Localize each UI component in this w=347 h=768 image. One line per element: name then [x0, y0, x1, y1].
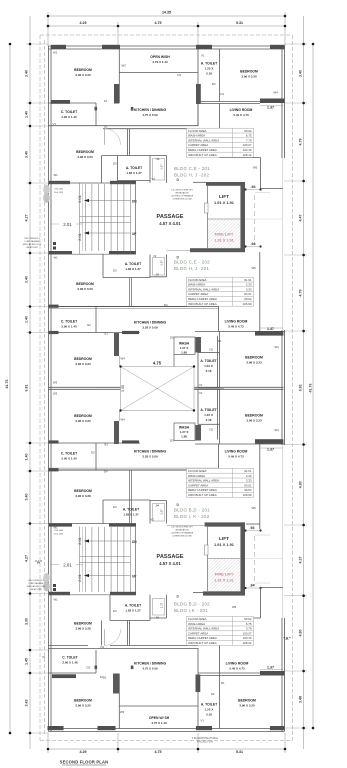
a-toilet top east wall: [219, 49, 221, 102]
bedroom bottom-left east wall: [118, 674, 120, 729]
svg-text:99.62: 99.62: [244, 488, 252, 492]
svg-text:1.37: 1.37: [267, 327, 274, 331]
living mid west walls: [218, 307, 219, 471]
svg-text:D4: D4: [101, 645, 105, 649]
a-toilet box below stair bottom wing: [110, 595, 167, 621]
svg-text:FLOOR AREA: FLOOR AREA: [188, 617, 207, 621]
svg-text:7.79: 7.79: [246, 138, 252, 142]
svg-text:3.33: 3.33: [246, 479, 252, 483]
svg-text:4.75 X 1.43: 4.75 X 1.43: [151, 721, 167, 725]
svg-text:4.75: 4.75: [155, 21, 162, 25]
svg-text:4.37: 4.37: [299, 557, 303, 564]
svg-text:BEDROOM: BEDROOM: [238, 699, 256, 703]
svg-text:W5: W5: [252, 506, 257, 510]
top wing interior walls: [49, 49, 285, 189]
svg-text:LOBBY PASSAGE: LOBBY PASSAGE: [25, 240, 41, 243]
living top west wall: [219, 104, 221, 158]
svg-text:INSTALLATION: INSTALLATION: [175, 529, 189, 532]
kitchen west wall: [127, 129, 129, 156]
svg-text:WASH AREA: WASH AREA: [188, 474, 205, 478]
svg-text:PASSAGE: PASSAGE: [157, 554, 184, 560]
svg-text:2.01: 2.01: [63, 563, 72, 568]
svg-text:103.16: 103.16: [243, 636, 252, 640]
svg-text:2.01: 2.01: [77, 536, 82, 545]
svg-text:2.18: 2.18: [206, 369, 212, 373]
svg-text:4.75 X 5.09: 4.75 X 5.09: [142, 113, 158, 117]
svg-text:2.90 X 1.40: 2.90 X 1.40: [61, 457, 77, 461]
svg-text:D3: D3: [178, 73, 182, 77]
svg-text:W4: W4: [121, 418, 126, 422]
svg-text:FLOOR AREA: FLOOR AREA: [188, 469, 207, 473]
svg-text:41.76: 41.76: [309, 384, 313, 393]
svg-text:D2: D2: [212, 82, 216, 86]
svg-text:1.91 X 1.91: 1.91 X 1.91: [214, 542, 235, 547]
svg-text:5.31: 5.31: [236, 750, 243, 754]
svg-text:4.79: 4.79: [299, 290, 303, 297]
dim 1.37 mid right bottom: [260, 447, 283, 449]
svg-text:A. TOILET: A. TOILET: [201, 703, 218, 707]
corridor below toilet bottom wing: [102, 621, 130, 646]
svg-text:4.29: 4.29: [80, 21, 87, 25]
svg-text:W2: W2: [53, 725, 58, 729]
svg-text:3.40: 3.40: [299, 70, 303, 77]
svg-text:3.96 X 3.53: 3.96 X 3.53: [77, 155, 93, 159]
stair block bottom: [49, 523, 136, 595]
dim 1.37 mid right top: [260, 327, 283, 329]
svg-text:W5: W5: [252, 266, 257, 270]
lift block top: [193, 181, 206, 183]
lift dims bottom: [244, 529, 261, 589]
room labels: [61, 55, 263, 725]
svg-text:WASH AREA: WASH AREA: [188, 134, 205, 138]
svg-text:CORRIDORS & 10 NB: CORRIDORS & 10 NB: [172, 199, 192, 201]
svg-text:3.96 X 3.23: 3.96 X 3.23: [246, 419, 262, 423]
svg-text:INDV.BUILT UP AREA: INDV.BUILT UP AREA: [188, 302, 217, 306]
svg-text:BLDG B,D - 201: BLDG B,D - 201: [174, 508, 210, 513]
kitchen east wall: [197, 49, 199, 126]
svg-text:D3: D3: [170, 336, 174, 340]
svg-text:1.88: 1.88: [181, 435, 187, 439]
svg-text:INTERNAL WALL AREA: INTERNAL WALL AREA: [188, 627, 219, 631]
svg-text:W3: W3: [122, 64, 127, 68]
mid-left C toilet bottom wing: [49, 443, 141, 470]
passage west wall: [135, 183, 137, 254]
svg-text:3.96 X 3.23: 3.96 X 3.23: [246, 361, 262, 365]
svg-text:1.37: 1.37: [160, 509, 164, 515]
svg-text:1.22 X: 1.22 X: [204, 413, 213, 417]
svg-text:1.83 X 1.37: 1.83 X 1.37: [125, 609, 141, 613]
svg-text:BEDROOM: BEDROOM: [240, 70, 258, 74]
svg-text:2.18: 2.18: [206, 713, 212, 717]
svg-text:3.40: 3.40: [25, 494, 29, 501]
svg-text:.94: .94: [155, 616, 159, 620]
svg-text:D3: D3: [113, 505, 117, 509]
svg-text:A. TOILET: A. TOILET: [125, 262, 142, 266]
kitchen east wall bottom: [197, 648, 199, 729]
svg-text:2.96 X 1.48: 2.96 X 1.48: [62, 661, 78, 665]
lobby edge line top: [167, 249, 191, 251]
a-toilet mid boxes: [198, 332, 220, 445]
svg-text:5.31: 5.31: [236, 21, 243, 25]
svg-text:BEDROOM: BEDROOM: [74, 68, 92, 72]
wing divider wall top: [49, 306, 219, 308]
svg-text:KITCHEN / DINNING: KITCHEN / DINNING: [134, 662, 167, 666]
dim 1.37 top right: [260, 105, 283, 107]
svg-text:D1: D1: [221, 92, 225, 96]
svg-text:BLDG H, J -201: BLDG H, J -201: [174, 266, 209, 271]
dim 1.37 bottom right: [260, 668, 283, 670]
kitchen east bar bottom: [196, 675, 201, 693]
svg-text:THE CORRIDOR &: THE CORRIDOR &: [24, 238, 40, 240]
svg-text:2.01: 2.01: [77, 232, 82, 241]
svg-text:PROJECTION: PROJECTION: [197, 741, 213, 744]
svg-text:WASH: WASH: [179, 426, 190, 430]
svg-text:1.37: 1.37: [267, 105, 274, 109]
svg-text:WASH AREA: WASH AREA: [188, 622, 205, 626]
svg-text:C.E. GROUTS FIRE LIFT: C.E. GROUTS FIRE LIFT: [171, 527, 193, 529]
toilet small dims: [155, 157, 163, 620]
wash box top: [174, 337, 195, 367]
svg-text:LIVING ROOM: LIVING ROOM: [225, 320, 248, 324]
svg-text:BEDROOM: BEDROOM: [74, 489, 92, 493]
living bottom wall fill: [260, 671, 285, 676]
svg-text:LIVING ROOM: LIVING ROOM: [226, 662, 249, 666]
svg-text:A. TOILET: A. TOILET: [126, 166, 143, 170]
svg-text:A. TOILET: A. TOILET: [123, 508, 140, 512]
svg-text:W2: W2: [53, 51, 58, 55]
south wall window fills: [48, 726, 285, 730]
a-toilet top box left: [197, 104, 199, 127]
kitchen east wall bar: [196, 84, 201, 104]
svg-text:BEDROOM: BEDROOM: [74, 622, 92, 626]
svg-text:3.96 X 3.23: 3.96 X 3.23: [75, 362, 91, 366]
svg-text:BEDROOM: BEDROOM: [245, 414, 263, 418]
corridor above stair bottom: [130, 470, 132, 524]
svg-text:RERA CARPET AREA: RERA CARPET AREA: [188, 148, 217, 152]
svg-text:3.05: 3.05: [121, 385, 125, 392]
svg-text:KITCHEN / DINNING: KITCHEN / DINNING: [134, 108, 167, 112]
svg-text:D3: D3: [113, 609, 117, 613]
svg-text:1.22 X: 1.22 X: [204, 364, 213, 368]
door posts toilet row: [95, 107, 98, 111]
svg-text:E1: E1: [105, 443, 109, 447]
svg-text:TH0.30M: TH0.30M: [54, 530, 63, 532]
svg-text:INSTALLATION: INSTALLATION: [175, 192, 189, 195]
svg-text:108.12: 108.12: [243, 153, 252, 157]
svg-text:WIDTH AS PER CODE: WIDTH AS PER CODE: [23, 243, 42, 246]
svg-text:100.37: 100.37: [243, 631, 252, 635]
lobby edge line bottom: [167, 525, 207, 527]
balcony slab lines bottom: [255, 534, 270, 536]
svg-text:1.83 X 1.37: 1.83 X 1.37: [123, 513, 139, 517]
svg-text:BEDROOM: BEDROOM: [76, 150, 94, 154]
svg-text:108.32: 108.32: [243, 641, 252, 645]
svg-text:OPEN W/SH: OPEN W/SH: [150, 55, 170, 59]
svg-text:D3: D3: [87, 666, 91, 670]
building outline walls: [49, 46, 285, 732]
svg-text:V2: V2: [153, 254, 157, 258]
svg-text:2.01: 2.01: [63, 222, 72, 227]
svg-text:2.90 X 1.40: 2.90 X 1.40: [61, 325, 77, 329]
lobby east walls: [246, 252, 260, 529]
svg-text:6.75: 6.75: [246, 622, 252, 626]
svg-text:4.75 X 5.09: 4.75 X 5.09: [142, 667, 158, 671]
wall toilet bottom / kitchen top: [49, 125, 199, 127]
svg-text:D3: D3: [91, 451, 95, 455]
svg-text:C.E. GROUTS FIRE LIFT: C.E. GROUTS FIRE LIFT: [171, 190, 193, 192]
svg-text:D3: D3: [113, 162, 117, 166]
svg-text:1.37: 1.37: [267, 665, 274, 669]
svg-text:E1: E1: [104, 99, 108, 103]
door posts toilet row bottom: [95, 666, 98, 670]
svg-text:2.30: 2.30: [246, 474, 252, 478]
svg-text:W3: W3: [53, 392, 58, 396]
svg-text:3.40: 3.40: [25, 151, 29, 158]
svg-text:3.30: 3.30: [25, 618, 29, 625]
svg-text:WASH: WASH: [179, 342, 190, 346]
svg-text:A. TOILET: A. TOILET: [200, 408, 217, 412]
svg-text:INDV.BUILT UP AREA: INDV.BUILT UP AREA: [188, 493, 217, 497]
svg-text:93.62: 93.62: [244, 617, 252, 621]
svg-text:E1: E1: [105, 332, 109, 336]
svg-text:4.75: 4.75: [155, 750, 162, 754]
svg-text:INTERNAL WALL AREA: INTERNAL WALL AREA: [188, 138, 219, 142]
svg-text:5.49 X 4.73: 5.49 X 4.73: [228, 325, 244, 329]
svg-text:3.96 X 3.20: 3.96 X 3.20: [75, 73, 91, 77]
right dim connector ticks: [284, 44, 307, 728]
svg-text:41.76: 41.76: [5, 380, 9, 389]
living top wall fill: [260, 99, 285, 104]
svg-text:106.99: 106.99: [243, 302, 252, 306]
svg-text:RERA CARPET AREA: RERA CARPET AREA: [188, 488, 217, 492]
svg-text:"A": "A": [283, 636, 290, 641]
svg-text:V1: V1: [199, 383, 203, 387]
living room top wall: [198, 101, 285, 103]
svg-text:6.81: 6.81: [25, 385, 29, 392]
a-toilet box near stair top: [102, 156, 167, 184]
svg-text:A. TOILET: A. TOILET: [200, 359, 217, 363]
svg-text:V2: V2: [152, 177, 156, 181]
svg-text:W4: W4: [275, 345, 280, 349]
door dots bottom stair: [53, 584, 56, 587]
svg-text:FLOOR AREA: FLOOR AREA: [188, 278, 207, 282]
svg-text:3.40: 3.40: [25, 276, 29, 283]
svg-text:W4: W4: [275, 428, 280, 432]
svg-text:CARPET AREA: CARPET AREA: [188, 631, 208, 635]
svg-text:1.40: 1.40: [25, 454, 29, 461]
svg-text:5.49 X 4.73: 5.49 X 4.73: [228, 455, 244, 459]
svg-text:1.37 X: 1.37 X: [180, 430, 189, 434]
svg-text:TH0.30M: TH0.30M: [54, 189, 63, 191]
svg-text:BLDG B,D - 202: BLDG B,D - 202: [174, 602, 210, 607]
svg-text:3.96 X 3.20: 3.96 X 3.20: [75, 704, 91, 708]
balcony slab line top: [245, 218, 283, 220]
svg-text:4.47: 4.47: [299, 215, 303, 222]
svg-text:LIVING ROOM: LIVING ROOM: [230, 108, 253, 112]
tiny note top: [171, 190, 194, 201]
svg-text:W4: W4: [121, 357, 126, 361]
svg-text:.94: .94: [156, 157, 160, 161]
svg-text:BLDG I, K - 202: BLDG I, K - 202: [174, 514, 210, 519]
svg-text:1.88: 1.88: [181, 351, 187, 355]
svg-text:4.29: 4.29: [80, 750, 87, 754]
stair top wall: [49, 181, 136, 184]
balcony dashes right of lift top: [254, 195, 256, 245]
svg-text:KITCHEN / DINNING: KITCHEN / DINNING: [134, 450, 167, 454]
svg-text:4.27: 4.27: [25, 215, 29, 222]
svg-text:BLDG C,E - 202: BLDG C,E - 202: [174, 260, 210, 265]
svg-text:1.37: 1.37: [160, 164, 164, 170]
svg-text:INTERNAL WALL AREA: INTERNAL WALL AREA: [188, 287, 219, 291]
svg-text:2.18: 2.18: [206, 418, 212, 422]
svg-text:.94: .94: [251, 242, 256, 246]
svg-text:6.75: 6.75: [246, 134, 252, 138]
svg-text:1.37 X: 1.37 X: [180, 346, 189, 350]
svg-text:FIRE LIFT: FIRE LIFT: [215, 572, 234, 577]
svg-text:D1: D1: [103, 676, 107, 680]
corridor lines mid shaft: [96, 387, 224, 390]
svg-text:W5: W5: [232, 605, 237, 609]
living room bottom wall: [220, 157, 261, 159]
svg-text:91.01: 91.01: [244, 278, 252, 282]
svg-text:V1: V1: [42, 655, 46, 659]
stair block top: [80, 183, 131, 254]
misc component labels: [42, 51, 279, 730]
svg-text:D2: D2: [210, 348, 214, 352]
svg-text:LUG FIELD OF PASSAGE: LUG FIELD OF PASSAGE: [171, 532, 194, 535]
svg-text:C. TOLET: C. TOLET: [62, 656, 78, 660]
svg-text:INDV.BUILT UP AREA: INDV.BUILT UP AREA: [188, 153, 217, 157]
svg-text:BEDROOM: BEDROOM: [74, 414, 92, 418]
svg-text:LAP AT FIRST: LAP AT FIRST: [30, 588, 42, 591]
svg-text:.94: .94: [155, 504, 159, 508]
svg-text:.94: .94: [155, 273, 159, 277]
lobby east step: [260, 158, 262, 189]
door dots top stair: [53, 242, 56, 245]
svg-text:2.30: 2.30: [246, 283, 252, 287]
stair dim 2.01 labels top: [82, 184, 84, 251]
svg-text:THE CORRIDOR &: THE CORRIDOR &: [28, 580, 44, 582]
mid bedrooms divider double wall: [49, 387, 284, 389]
svg-text:WASH AREA: WASH AREA: [188, 283, 205, 287]
svg-text:RERA CARPET AREA: RERA CARPET AREA: [188, 297, 217, 301]
svg-text:G2: G2: [87, 323, 91, 327]
svg-text:103.16: 103.16: [243, 148, 252, 152]
svg-text:CARPET AREA: CARPET AREA: [188, 292, 208, 296]
left dim connector ticks: [26, 44, 49, 733]
svg-text:3.28 X 5.09: 3.28 X 5.09: [142, 326, 158, 330]
svg-text:3.96 X 3.28: 3.96 X 3.28: [75, 627, 91, 631]
svg-text:DN: DN: [132, 199, 137, 203]
svg-text:C. TOILET: C. TOILET: [61, 110, 78, 114]
svg-text:4.27: 4.27: [25, 555, 29, 562]
balcony dashes right of lift bottom: [254, 536, 256, 585]
svg-text:BEDROOM: BEDROOM: [245, 356, 263, 360]
svg-text:BLDG H, J -202: BLDG H, J -202: [174, 172, 209, 177]
right dim labels: [299, 70, 313, 703]
svg-text:DN: DN: [132, 540, 137, 544]
svg-text:2.90 X 1.40: 2.90 X 1.40: [61, 115, 77, 119]
svg-text:PASSAGE: PASSAGE: [157, 214, 184, 220]
kitchen bottom top wall: [49, 645, 89, 647]
svg-text:3.79: 3.79: [246, 627, 252, 631]
svg-text:INTERNAL WALL AREA: INTERNAL WALL AREA: [188, 479, 219, 483]
corridor west line: [101, 156, 103, 184]
dashed architectural projection outline: [40, 35, 293, 741]
svg-text:2.01: 2.01: [77, 194, 82, 203]
svg-text:V1: V1: [201, 719, 205, 723]
kitchen west bar bottom: [113, 674, 119, 694]
svg-text:LUG FIELD OF PASSAGE: LUG FIELD OF PASSAGE: [171, 195, 194, 198]
svg-text:D3: D3: [170, 439, 174, 443]
svg-text:R=0.15M: R=0.15M: [54, 192, 63, 194]
c toilet bottom: [49, 672, 97, 674]
svg-text:1.40: 1.40: [25, 111, 29, 118]
svg-text:1.22 X: 1.22 X: [205, 708, 214, 712]
svg-text:.94: .94: [250, 526, 255, 530]
svg-text:LIVING ROOM: LIVING ROOM: [225, 450, 248, 454]
open wash bottom wall: [119, 72, 198, 74]
a-toilet bottom right east wall: [219, 673, 221, 729]
svg-text:3.40: 3.40: [25, 70, 29, 77]
svg-text:106.99: 106.99: [243, 493, 252, 497]
svg-text:1.83 X 1.37: 1.83 X 1.37: [125, 267, 141, 271]
wing divider wall 2: [49, 469, 219, 471]
svg-text:3.48: 3.48: [299, 696, 303, 703]
svg-text:W1: W1: [54, 526, 59, 530]
tables: [187, 128, 254, 157]
central shaft: [120, 356, 194, 421]
svg-text:OPEN W/ SH: OPEN W/ SH: [149, 716, 170, 720]
svg-text:A. TOILET: A. TOILET: [201, 62, 218, 66]
east recessed bay lines: [282, 158, 284, 330]
svg-text:1.37: 1.37: [160, 602, 164, 608]
svg-text:4.57 X 4.01: 4.57 X 4.01: [159, 561, 181, 566]
c-toilet bottom wall fill: [52, 674, 76, 678]
door arc kitchen bottom: [105, 630, 121, 646]
svg-text:W3: W3: [120, 710, 125, 714]
svg-text:CORRIDORS & 10 NB: CORRIDORS & 10 NB: [172, 536, 192, 538]
svg-text:4.79 X 1.43: 4.79 X 1.43: [152, 60, 168, 64]
svg-text:99.62: 99.62: [244, 297, 252, 301]
svg-text:V1: V1: [201, 54, 205, 58]
svg-text:D3: D3: [113, 269, 117, 273]
svg-text:D1: D1: [218, 339, 222, 343]
svg-text:BLDG C,E - 201: BLDG C,E - 201: [174, 166, 210, 171]
lobby step bottom wing: [220, 588, 284, 674]
svg-text:84.01: 84.01: [244, 292, 252, 296]
svg-text:V1: V1: [199, 391, 203, 395]
svg-text:CARPET AREA: CARPET AREA: [188, 143, 208, 147]
svg-text:93.01: 93.01: [244, 483, 252, 487]
open wash top wall bottom: [119, 705, 198, 707]
lift block bottom: [205, 522, 245, 526]
svg-text:D4: D4: [164, 303, 168, 307]
living room bottom wall b: [198, 672, 285, 674]
svg-text:4.79: 4.79: [299, 139, 303, 146]
toilet east wall: [95, 103, 97, 126]
svg-text:3.96 X 3.20: 3.96 X 3.20: [239, 704, 255, 708]
svg-text:14.35: 14.35: [162, 11, 171, 15]
svg-text:93.02: 93.02: [244, 129, 252, 133]
svg-text:V1: V1: [53, 122, 57, 126]
bedroom1 east wall bar: [114, 84, 119, 104]
svg-text:R=0.15M: R=0.15M: [54, 533, 63, 535]
svg-text:C. TOILET: C. TOILET: [61, 320, 78, 324]
svg-text:INDV.BUILT UP AREA: INDV.BUILT UP AREA: [188, 641, 217, 645]
wall bedroom/toilet divider: [49, 102, 97, 104]
svg-text:1.83 X 1.37: 1.83 X 1.37: [126, 171, 142, 175]
